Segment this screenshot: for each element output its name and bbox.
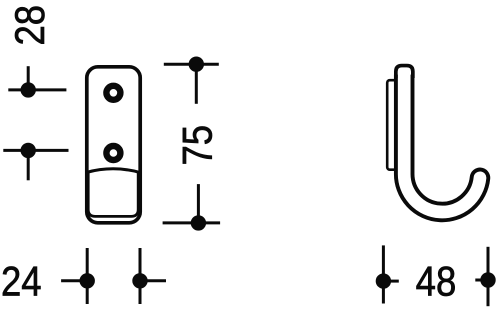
side view: hook silhouette xyxy=(404,74,480,212)
side view: wall plate profile xyxy=(387,80,399,170)
hook base front face xyxy=(88,173,138,217)
dim marker 48 right xyxy=(475,247,494,306)
dim marker 48 left xyxy=(377,245,399,303)
screw hole bottom xyxy=(106,146,120,160)
dim marker 24 left xyxy=(61,248,93,304)
dim marker 75 top xyxy=(164,58,219,104)
screw hole top xyxy=(106,86,120,100)
plate front view outline xyxy=(87,67,140,223)
dim marker 24 right xyxy=(134,248,166,304)
dim marker 75 bottom xyxy=(163,184,221,229)
dim marker 28 top xyxy=(8,66,66,96)
side view: hook inner white xyxy=(404,74,480,212)
side view: hook top cap xyxy=(393,63,416,75)
hook base divider arc xyxy=(87,169,140,173)
svg-text:28: 28 xyxy=(6,5,53,46)
svg-text:75: 75 xyxy=(174,125,221,166)
svg-text:48: 48 xyxy=(416,258,457,305)
dim marker 28 bottom xyxy=(3,144,68,180)
svg-text:24: 24 xyxy=(1,258,42,305)
